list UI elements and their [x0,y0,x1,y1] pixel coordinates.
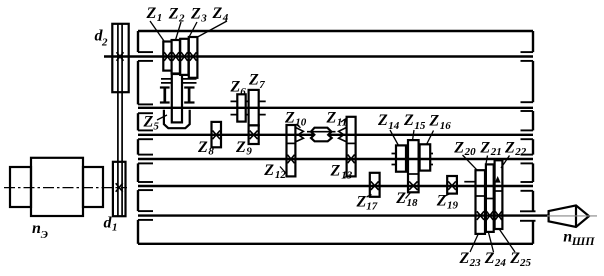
svg-text:Z: Z [453,139,464,156]
belt drive lines [118,24,122,216]
divider gear column Z21 Z24 [486,198,494,200]
gear Z19 [447,176,457,194]
shaft II [138,107,533,109]
housing top wall [138,30,533,32]
label Z13 [330,163,353,182]
leader Z21 [486,156,488,165]
svg-text:Z: Z [356,194,367,211]
gear Z17 [370,173,380,197]
leader Z2 [176,22,182,40]
leader Z14 [390,130,399,146]
svg-text:9: 9 [246,146,252,158]
leader Z3 [188,22,197,39]
spindle cone base line [575,205,577,227]
label Z25 [509,250,531,269]
svg-text:Z: Z [230,79,241,96]
divider gear column Z20 Z23 [476,195,486,197]
spindle nose cone [549,205,589,227]
svg-text:Z: Z [436,193,447,210]
bearing shaft I left wall [138,52,153,61]
svg-text:ШП: ШП [571,234,596,248]
svg-text:16: 16 [440,120,452,132]
housing right wall segments [532,31,534,244]
label Z16 [428,112,451,132]
label Z4 [212,5,229,24]
svg-text:13: 13 [341,170,353,182]
label Z3 [190,5,207,24]
bearing shaft V left wall [138,182,153,190]
clutch jaw on Z11 [339,127,347,141]
shaft I lower extension column into cup Z5 [172,74,182,122]
fixed mark gear Z17 [371,181,379,190]
svg-text:2: 2 [178,12,185,24]
svg-text:7: 7 [259,79,265,91]
leader Z18 [406,193,411,199]
bearing shaft III right wall [521,130,534,139]
svg-text:10: 10 [295,117,307,129]
divider gear column Z11 Z13 [347,142,356,144]
svg-text:1: 1 [157,12,163,24]
gear Z16 [420,144,431,170]
fixed gear left on shaft II I-beam [160,88,170,103]
gear Z2 [172,40,180,74]
svg-text:Z: Z [284,110,295,127]
gear column Z10 Z12 [287,125,296,176]
label n motor [32,220,48,241]
svg-text:3: 3 [200,12,207,24]
leader Z11 [341,118,348,123]
bearing shaft IV left wall [138,155,153,164]
shaft IV [138,158,533,160]
label d2 [95,28,109,49]
svg-text:Z: Z [235,139,246,156]
svg-text:Z: Z [197,139,208,156]
leader Z23 [470,235,478,253]
svg-text:Z: Z [459,250,470,267]
label Z11 [326,110,348,129]
svg-text:20: 20 [464,146,477,158]
svg-text:18: 18 [407,197,419,209]
clutch sliding sleeve body [311,128,332,142]
pulley d1 [113,162,126,216]
label Z8 [197,139,214,158]
label Z7 [248,72,265,92]
label Z21 [479,139,501,158]
fixed mark gear Z9 [250,131,258,140]
bearing spindle right wall [520,211,536,221]
gear Z3 [180,39,188,75]
electric motor body [31,158,83,216]
label Z18 [395,190,418,209]
svg-text:Z: Z [509,250,520,267]
shaft I [104,55,533,57]
svg-text:Z: Z [428,112,439,129]
svg-text:n: n [32,220,41,237]
gear column Z21 Z24 [486,164,494,232]
pulley d2 [112,24,128,92]
fixed mark gear Z23 [477,211,484,220]
bearing shaft II left wall [138,104,153,113]
divider gear column Z10 Z12 [287,142,296,144]
svg-text:Z: Z [190,5,201,22]
label n spindle [563,229,595,249]
label Z1 [146,5,163,24]
gear Z14 [396,145,406,171]
svg-text:12: 12 [275,169,287,181]
leader Z16 [427,131,434,145]
bearing shaft V right wall [521,182,534,191]
spline lines shaft I under gear block Z1-Z4 [161,79,197,83]
divider gear column Z22 Z25 [495,190,503,192]
gear Z9 [249,125,259,144]
fixed mark gear Z8 [213,131,221,140]
fixed mark gear Z3 [181,52,188,61]
svg-text:8: 8 [208,146,214,158]
spline line shaft V left of block Z20 [464,181,476,183]
label Z10 [284,110,307,129]
electric motor right flange [83,167,103,207]
leader Z17 [367,195,372,198]
fixed mark gear Z4 [190,52,197,61]
leader Z20 [463,155,478,170]
svg-text:Z: Z [263,162,274,179]
label d1 [104,215,118,234]
fixed mark gear Z19 [448,181,456,190]
leader Z25 [500,230,516,253]
svg-text:Z: Z [168,5,179,22]
leader Z13 [343,176,348,178]
svg-text:Z: Z [377,112,388,129]
svg-text:Z: Z [330,163,341,180]
shaft VI spindle [138,214,549,216]
label Z17 [356,194,378,213]
label Z14 [377,112,400,132]
svg-text:Z: Z [395,190,406,207]
leader Z12 [280,167,287,175]
bearing shaft IV right wall [521,155,534,164]
leader Z24 [489,233,494,253]
label Z19 [436,193,459,212]
svg-text:Z: Z [212,5,223,22]
gear Z1 [163,42,171,71]
svg-text:Z: Z [484,250,495,267]
label Z22 [504,139,527,158]
divider gear column Z15 Z18 [408,173,419,175]
leader Z15 [413,130,415,141]
svg-text:21: 21 [490,146,502,158]
svg-text:1: 1 [112,222,118,234]
svg-text:Э: Э [41,229,48,241]
gear Z7 [249,90,259,126]
gear column Z22 Z25 [495,160,503,229]
svg-text:Z: Z [248,72,259,89]
svg-text:6: 6 [240,86,246,98]
svg-text:2: 2 [101,36,108,48]
fixed gear right on shaft II I-beam [184,88,194,103]
clutch jaw on Z10 [295,127,303,141]
svg-text:24: 24 [494,257,507,269]
label Z15 [403,112,426,132]
gear column Z20 Z23 [476,170,486,234]
leader Z10 [296,124,301,128]
fixed mark gear Z2 [173,52,180,61]
label Z23 [459,250,482,269]
label Z9 [235,139,252,158]
housing left wall segments [137,31,139,244]
bearing shaft II right wall [521,102,534,111]
label Z2 [168,5,185,24]
bearing shaft VI left wall [138,211,153,220]
leader Z22 [501,156,510,169]
svg-text:19: 19 [447,200,459,212]
motor axis line [4,187,127,189]
leader Z1 [150,21,164,41]
internal gear cup Z5 [164,110,190,128]
label Z24 [484,250,507,269]
gear Z4 [189,37,198,78]
svg-text:Z: Z [146,5,157,22]
bearing shaft I right wall [521,52,534,61]
clutch sleeve flange line [307,131,336,133]
fixed mark gear Z12 [287,155,294,164]
housing bottom wall [138,243,533,245]
fixed mark pulley d2 [117,52,124,61]
electric motor left flange [10,167,31,207]
fixed mark gear Z24 [487,211,494,220]
pointer mark in gear Z22 [495,176,501,183]
gear Z6 [237,94,245,121]
svg-text:Z: Z [403,112,414,129]
fixed mark gear Z25 [495,211,502,220]
label Z12 [263,162,286,181]
svg-text:5: 5 [153,120,159,132]
spline lines shaft II under gears Z6 Z7 [231,101,266,114]
fixed mark pulley d1 [116,183,123,192]
gear column Z11 Z13 [347,117,356,177]
shaft III [138,134,533,136]
leader Z5 [157,115,167,120]
gear column Z15 Z18 [408,140,419,192]
shaft V [138,185,533,187]
leader Z4 [198,21,228,37]
svg-text:Z: Z [479,139,490,156]
label Z6 [230,79,247,99]
spline lines shaft IV under cluster Z14-Z16 [392,154,434,165]
fixed mark gear Z13 [348,155,355,164]
fixed mark gear Z1 [164,52,171,61]
svg-text:17: 17 [366,200,378,212]
svg-text:25: 25 [519,257,532,269]
gear Z8 [212,122,222,147]
svg-text:Z: Z [504,139,515,156]
fixed mark gear Z18 [409,181,417,190]
svg-text:23: 23 [469,257,482,269]
bearing shaft III left wall [138,130,153,139]
svg-text:15: 15 [414,120,426,132]
svg-text:Z: Z [326,110,337,127]
svg-text:Z: Z [143,114,154,131]
spindle axis line [547,215,597,217]
label Z5 [143,114,160,133]
label Z20 [453,139,476,158]
svg-text:22: 22 [514,146,527,158]
leader Z19 [444,194,450,197]
